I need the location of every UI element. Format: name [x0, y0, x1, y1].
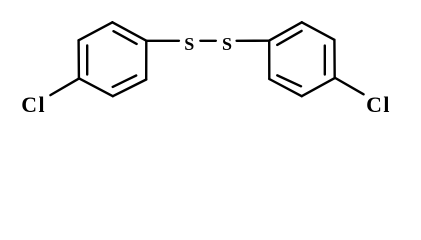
right benzene ring edge B-RB (single bond) [302, 78, 335, 96]
right benzene ring edge LT-T inner double bond line [277, 31, 301, 45]
svg-text:S: S [184, 34, 194, 54]
right benzene ring edge LB-B (double bond outer) [269, 79, 301, 96]
left benzene ring edge T-RT (double bond outer) [112, 22, 146, 40]
right benzene ring edge LB-B inner double bond line [277, 75, 301, 86]
left benzene ring edge RT-RB (single bond) [145, 41, 148, 80]
left benzene ring edge B-RB inner double bond line [113, 76, 137, 87]
right benzene ring edge T-RT (single bond) [302, 22, 335, 40]
left benzene ring edge LT-LB inner double bond line [86, 46, 88, 75]
wire bond C-Cl from right ring RB vertex to Cl label [335, 78, 363, 94]
wire bond S-S between the two sulfur atoms [200, 40, 215, 42]
right benzene ring edge LT-LB (single bond) [268, 41, 270, 79]
left benzene ring edge B-RB (double bond outer) [113, 80, 146, 97]
left benzene ring edge T-LT (single bond) [79, 22, 113, 40]
right benzene ring edge LT-T (double bond outer) [269, 22, 302, 40]
wire bond S-C from second S to right ring LT vertex [237, 40, 270, 42]
wire bond C-S from left ring RT vertex to first S [146, 40, 179, 42]
left benzene ring edge LT-LB (double bond outer) [77, 40, 80, 78]
svg-text:Cl: Cl [366, 93, 391, 117]
right benzene ring edge RT-RB (double bond outer) [333, 40, 336, 78]
svg-text:S: S [222, 34, 232, 54]
left benzene ring edge T-RT inner double bond line [114, 31, 137, 44]
right benzene ring edge RT-RB inner double bond line [324, 46, 326, 75]
left benzene ring edge LB-B (single bond) [79, 78, 113, 96]
wire bond C-Cl from left ring LB vertex to Cl label [50, 78, 79, 95]
svg-text:Cl: Cl [21, 93, 46, 117]
